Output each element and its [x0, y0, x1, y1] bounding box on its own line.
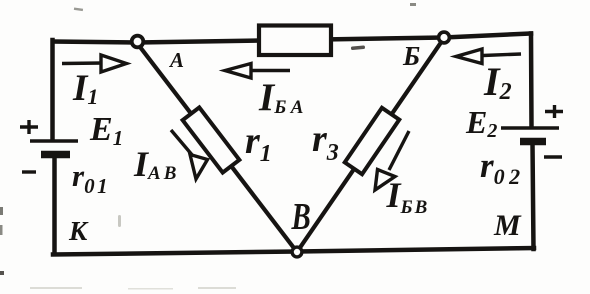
svg-text:IБА: IБА [258, 76, 303, 119]
svg-text:IБВ: IБВ [386, 175, 428, 218]
svg-text:I2: I2 [483, 59, 512, 105]
svg-text:I1: I1 [72, 68, 98, 109]
svg-text:IАВ: IАВ [133, 144, 176, 184]
svg-text:А: А [168, 48, 184, 72]
svg-text:E2: E2 [465, 104, 497, 142]
svg-text:r3: r3 [312, 118, 339, 166]
svg-text:E1: E1 [89, 111, 123, 150]
svg-text:К: К [68, 216, 89, 246]
svg-text:В: В [291, 196, 311, 238]
svg-text:М: М [493, 209, 522, 242]
svg-text:r01: r01 [72, 158, 108, 198]
svg-text:r1: r1 [245, 120, 272, 167]
svg-text:r02: r02 [480, 146, 520, 189]
svg-text:Б: Б [402, 41, 420, 71]
